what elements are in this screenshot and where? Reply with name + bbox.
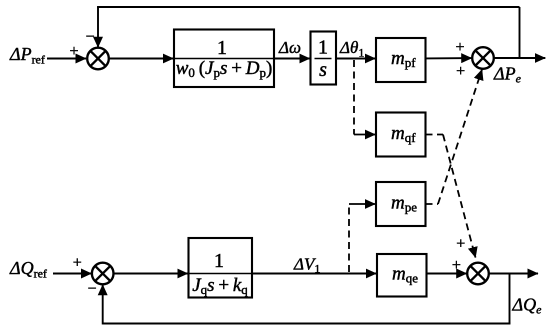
summing junction S3 [92, 263, 114, 285]
svg-text:1: 1 [214, 250, 224, 272]
wire S3 to block B6 [114, 273, 188, 275]
wire S1 to block B1 [109, 58, 174, 60]
wire into m_qf [354, 134, 375, 136]
wire m_pf to sum2 [426, 57, 472, 59]
svg-text:Δω: Δω [278, 38, 301, 57]
svg-text:1: 1 [217, 37, 227, 59]
block m_pe [376, 182, 426, 226]
wire B1 to B2 [274, 58, 310, 60]
svg-text:+: + [456, 63, 465, 80]
svg-text:+: + [452, 257, 461, 274]
wire S2 output dPe [494, 57, 546, 59]
svg-text:+: + [456, 236, 465, 253]
wire B6 to m_qe [252, 273, 376, 275]
svg-text:Jqs + kq: Jqs + kq [192, 275, 248, 297]
dashed diagonal m_qf to S4 [443, 135, 474, 251]
block m_pf [376, 38, 426, 82]
svg-text:+: + [73, 255, 82, 272]
svg-text:−: − [85, 29, 94, 46]
dashed wire m_qf output [426, 134, 444, 136]
block B6 transfer function 1/(Jq s+kq) [189, 238, 253, 298]
dashed wire m_pe output [426, 203, 439, 205]
dashed wire V1 branch up [348, 204, 350, 272]
wire feedback down into S1 [97, 7, 99, 47]
dashed wire theta1 branch down [353, 60, 355, 135]
wire right tap vertical down [509, 274, 511, 324]
dashed diagonal m_pe to S2 [438, 77, 480, 204]
svg-text:+: + [455, 39, 464, 56]
wire into m_pe [349, 203, 375, 205]
svg-text:s: s [319, 59, 327, 81]
wire top feedback horizontal [97, 6, 519, 8]
block B2 integrator 1/s [311, 32, 337, 85]
wire feedback up into S3 [102, 285, 104, 325]
svg-text:−: − [87, 281, 96, 298]
block B1 transfer function 1/(w0(Jp s+Dp)) [174, 30, 274, 88]
wire right tap vertical [519, 7, 521, 58]
block m_qe [377, 254, 427, 297]
svg-text:1: 1 [318, 37, 328, 59]
svg-text:+: + [69, 43, 78, 60]
block m_qf [376, 113, 426, 157]
wire dP_ref to sum1 [47, 58, 86, 60]
wire dQ_ref to sum3 [53, 273, 91, 275]
wire B2 to m_pf [336, 58, 375, 60]
wire S4 output dQe [489, 273, 538, 275]
summing junction S2 [472, 47, 494, 69]
wire bottom feedback horizontal [103, 323, 511, 325]
wire m_qe to sum4 [427, 273, 467, 275]
summing junction S1 [87, 48, 109, 70]
summing junction S4 [467, 263, 489, 285]
